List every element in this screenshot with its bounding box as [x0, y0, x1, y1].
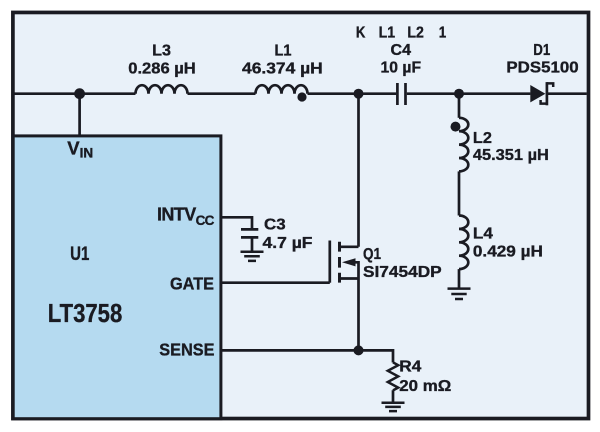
ground C3	[241, 252, 264, 261]
svg-text:L2: L2	[407, 25, 424, 42]
wire drain vertical	[357, 94, 360, 247]
wire INTVCC	[221, 217, 253, 228]
svg-text:LT3758: LT3758	[48, 298, 123, 328]
svg-text:PDS5100: PDS5100	[506, 59, 578, 76]
svg-text:L4: L4	[473, 225, 493, 242]
wire VIN drop	[78, 94, 81, 137]
transistor Q1 arrow	[342, 258, 356, 266]
wire source vertical	[357, 279, 360, 351]
node L1 phase dot	[297, 92, 306, 101]
wire arrow to source	[355, 262, 359, 278]
node drain junction	[354, 89, 364, 99]
wire C3 to ground	[251, 237, 254, 251]
transistor Q1 channel bars	[338, 242, 341, 283]
svg-text:GATE: GATE	[170, 273, 214, 293]
svg-text:L1: L1	[379, 25, 396, 42]
node L2 phase dot	[451, 122, 461, 132]
ground R4	[382, 403, 405, 411]
node VIN junction	[74, 88, 85, 99]
inductor L4	[459, 216, 468, 270]
svg-text:C3: C3	[264, 216, 286, 233]
diode D1	[530, 85, 545, 102]
inductor L1	[256, 85, 308, 94]
capacitor C3	[241, 229, 258, 237]
inductor L3	[136, 85, 188, 94]
wire SENSE	[221, 350, 394, 362]
svg-text:4.7 µF: 4.7 µF	[263, 235, 313, 252]
node SENSE junction	[354, 345, 364, 355]
IC U1 body	[13, 136, 221, 419]
svg-text:45.351 µH: 45.351 µH	[473, 147, 549, 164]
svg-text:U1: U1	[70, 244, 90, 265]
node L2 junction	[454, 89, 464, 99]
transistor Q1 gate bar	[328, 241, 331, 283]
wire L4 to ground	[458, 269, 461, 287]
svg-text:R4: R4	[399, 358, 421, 375]
svg-text:C4: C4	[391, 42, 412, 59]
wire L2 top	[458, 94, 461, 118]
svg-text:K: K	[356, 25, 366, 42]
svg-text:L1: L1	[275, 42, 292, 59]
resistor R4	[388, 362, 398, 390]
wire gate	[221, 281, 330, 284]
svg-text:SENSE: SENSE	[159, 340, 214, 360]
wire main rail segment 2	[188, 92, 256, 95]
svg-text:D1: D1	[533, 42, 550, 59]
svg-text:0.429 µH: 0.429 µH	[473, 243, 543, 260]
svg-text:46.374 µH: 46.374 µH	[242, 60, 323, 77]
diode D1 schottky hooks	[541, 83, 554, 103]
svg-text:10 µF: 10 µF	[381, 59, 422, 76]
capacitor C4	[397, 83, 405, 105]
svg-text:L2: L2	[473, 130, 492, 147]
wire drain stub	[341, 245, 359, 248]
wire main rail segment 5	[548, 92, 587, 95]
svg-text:L3: L3	[152, 42, 171, 59]
ground L4	[448, 289, 471, 299]
wire R4 to ground	[392, 390, 395, 401]
svg-text:SI7454DP: SI7454DP	[363, 264, 442, 281]
wire main rail segment 4	[407, 92, 531, 95]
svg-text:20 mΩ: 20 mΩ	[399, 378, 451, 395]
svg-text:Q1: Q1	[363, 246, 381, 263]
wire source stub	[341, 277, 359, 280]
wire main rail segment 3	[308, 92, 397, 95]
wire L2 to L4	[458, 171, 461, 215]
wire main rail segment 1	[15, 92, 136, 95]
inductor L2	[459, 118, 468, 172]
svg-text:1: 1	[439, 25, 447, 42]
diode D1 cathode bar	[546, 82, 549, 105]
svg-text:0.286 µH: 0.286 µH	[128, 60, 196, 77]
